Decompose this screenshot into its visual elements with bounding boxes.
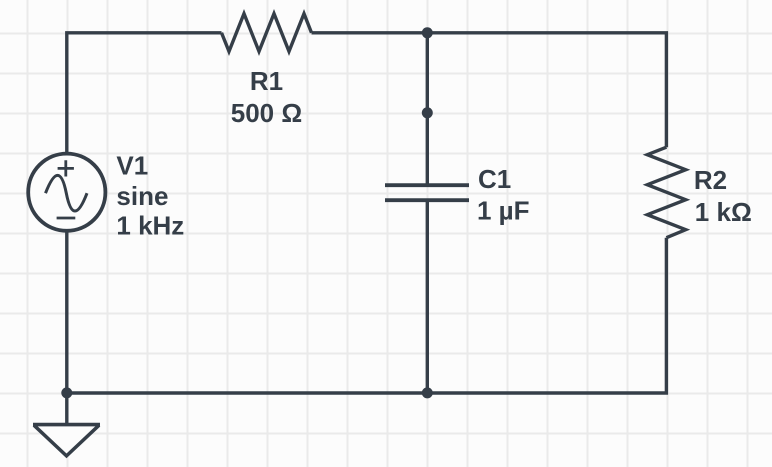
svg-text:R1: R1	[250, 66, 283, 96]
svg-text:C1: C1	[478, 164, 511, 194]
svg-text:sine: sine	[116, 181, 168, 211]
svg-text:V1: V1	[116, 150, 148, 180]
svg-text:R2: R2	[694, 165, 727, 195]
svg-text:1 kHz: 1 kHz	[116, 211, 184, 241]
svg-text:500 Ω: 500 Ω	[231, 98, 302, 128]
svg-text:1 kΩ: 1 kΩ	[695, 197, 752, 227]
svg-text:1 µF: 1 µF	[477, 196, 530, 226]
